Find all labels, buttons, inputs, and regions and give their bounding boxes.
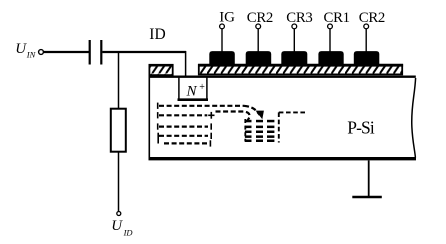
svg-text:IN: IN <box>26 49 37 59</box>
svg-text:CR2: CR2 <box>247 10 273 26</box>
svg-text:U: U <box>15 41 27 57</box>
svg-text:CR1: CR1 <box>324 10 350 26</box>
svg-text:CR2: CR2 <box>359 10 385 26</box>
svg-text:P-Si: P-Si <box>347 117 375 137</box>
svg-text:CR3: CR3 <box>286 10 312 26</box>
svg-text:IG: IG <box>219 9 235 25</box>
svg-text:ID: ID <box>123 227 134 237</box>
svg-text:U: U <box>111 218 123 234</box>
svg-text:+: + <box>199 82 205 93</box>
svg-text:N: N <box>186 84 198 100</box>
svg-text:ID: ID <box>149 26 165 43</box>
